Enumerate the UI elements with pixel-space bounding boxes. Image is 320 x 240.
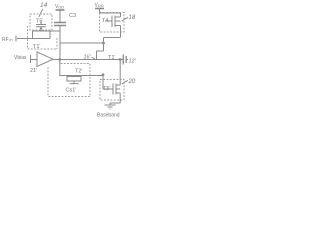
node D bbox=[102, 73, 105, 76]
terminal Vbias bbox=[30, 55, 32, 63]
svg-text:14: 14 bbox=[40, 2, 48, 9]
svg-text:T1': T1' bbox=[108, 55, 115, 61]
svg-text:Baseband: Baseband bbox=[97, 113, 120, 119]
wire T3 source to ground bbox=[110, 103, 121, 105]
op-amp T1' bbox=[37, 52, 53, 67]
dashed vertical near C3 bbox=[56, 38, 58, 49]
dashed box T5' bbox=[30, 14, 52, 30]
label 16 leader bbox=[92, 57, 96, 59]
svg-text:VDD: VDD bbox=[55, 4, 64, 10]
label 20 leader bbox=[122, 81, 128, 85]
ground bbox=[105, 105, 116, 109]
power VDD1 bbox=[56, 9, 65, 11]
svg-text:C3: C3 bbox=[69, 13, 76, 19]
svg-text:Vbias: Vbias bbox=[14, 55, 27, 61]
svg-text:18: 18 bbox=[129, 15, 136, 21]
capacitor Cs1 (MOS cap) bbox=[67, 77, 81, 84]
svg-text:VDD: VDD bbox=[95, 3, 104, 9]
wire gate tap T2 bbox=[73, 76, 75, 77]
svg-text:RF: RF bbox=[2, 37, 9, 43]
svg-text:T5': T5' bbox=[36, 19, 43, 25]
wire node A down bbox=[60, 60, 103, 76]
wire mid horizontal bbox=[60, 42, 104, 44]
dashed box amp left edge bbox=[27, 26, 29, 49]
label 18 leader bbox=[122, 18, 128, 22]
capacitor out bbox=[123, 55, 126, 65]
svg-text:T4: T4 bbox=[102, 18, 108, 24]
dashed box T4 bbox=[100, 13, 125, 33]
wire node C down bbox=[119, 60, 121, 86]
terminal RFin bbox=[15, 36, 17, 42]
node C bbox=[119, 58, 122, 61]
transistor T5' symbol bbox=[36, 22, 46, 32]
dashed box T2/Cs1 bbox=[48, 64, 90, 97]
dashed box amp top edge bbox=[28, 48, 58, 50]
node A bbox=[58, 58, 61, 61]
power VDD2 bbox=[95, 8, 104, 10]
dashed box T3 bbox=[100, 80, 124, 101]
wire T4 drain to node bbox=[97, 38, 121, 60]
wire amp input bbox=[31, 59, 37, 61]
node B bbox=[102, 42, 105, 45]
svg-text:Cs1': Cs1' bbox=[66, 88, 77, 94]
wire RFin bbox=[17, 38, 33, 40]
svg-text:12': 12' bbox=[129, 59, 137, 65]
svg-text:in: in bbox=[10, 37, 13, 42]
input stage rectangle wires bbox=[33, 31, 61, 39]
svg-text:T3': T3' bbox=[103, 86, 110, 92]
wire C3 down bbox=[59, 26, 61, 60]
svg-text:T1': T1' bbox=[33, 44, 40, 50]
transistor T3 bbox=[113, 84, 120, 104]
wire VDD2 rail bbox=[100, 12, 121, 14]
transistor T4 bbox=[112, 13, 121, 38]
label 14 leader bbox=[39, 9, 43, 17]
svg-text:T2': T2' bbox=[75, 69, 82, 75]
svg-text:20: 20 bbox=[128, 79, 136, 85]
capacitor C3 bbox=[54, 23, 66, 26]
wire amp output bbox=[53, 59, 123, 61]
wire T4 gate bbox=[105, 20, 112, 22]
wire T3 gate bbox=[103, 75, 113, 89]
svg-text:21': 21' bbox=[30, 68, 37, 74]
svg-text:16': 16' bbox=[84, 55, 92, 61]
